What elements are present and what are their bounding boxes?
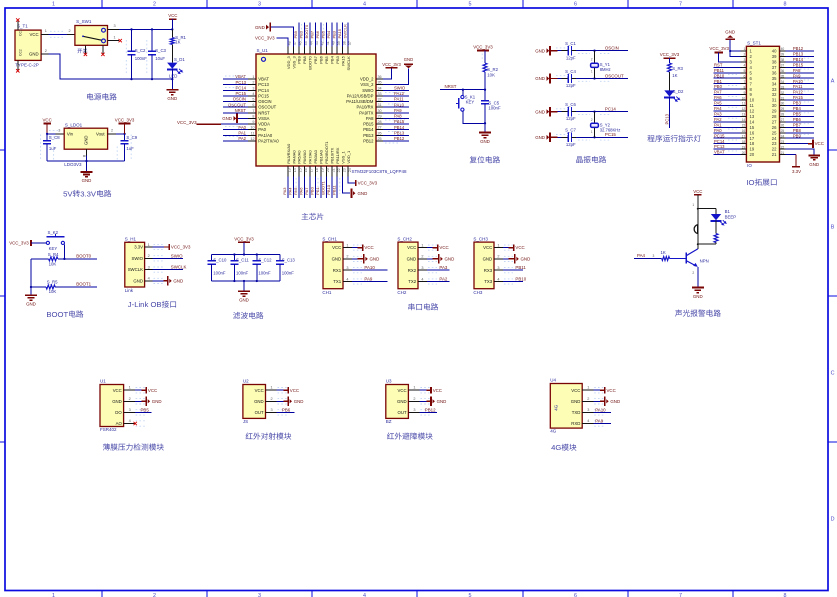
wire+net label PB12 (383, 140, 409, 142)
svg-text:PA15: PA15 (341, 55, 346, 65)
filter bottom rail (212, 280, 280, 282)
ground GND of BOOT circuit (25, 294, 37, 296)
wire+net label PA9 (352, 281, 387, 283)
svg-text:PC14: PC14 (714, 139, 725, 144)
svg-text:U3: U3 (386, 379, 392, 384)
svg-text:S_C2: S_C2 (135, 48, 146, 53)
svg-text:3: 3 (58, 128, 60, 132)
svg-text:17: 17 (750, 136, 755, 141)
svg-text:PA7: PA7 (714, 90, 722, 95)
svg-text:2: 2 (413, 397, 415, 401)
capacitor S_C7 12pF (567, 133, 569, 142)
svg-text:PA4: PA4 (288, 187, 293, 195)
U1 pin 44 BOOT0 (309, 46, 311, 54)
svg-text:38: 38 (772, 60, 777, 65)
wire+net label PA10 (383, 106, 409, 108)
svg-text:VCC_3V3: VCC_3V3 (234, 236, 254, 241)
svg-text:2: 2 (692, 271, 694, 275)
svg-text:26: 26 (781, 124, 785, 128)
svg-text:VCC_3V3: VCC_3V3 (9, 241, 29, 246)
wire+net label PB12 (786, 50, 815, 52)
wire+net label PA5 (714, 105, 741, 107)
svg-text:17: 17 (742, 134, 746, 138)
svg-text:2: 2 (591, 118, 593, 122)
S_ST1 pin 20 (740, 154, 746, 156)
svg-text:2: 2 (271, 397, 273, 401)
svg-text:TXD: TXD (572, 410, 581, 415)
svg-text:40: 40 (772, 49, 777, 54)
wire S_T1 VCC to switch pin 2 (41, 33, 48, 35)
svg-text:GND: GND (26, 302, 36, 307)
svg-text:100nF: 100nF (135, 56, 148, 61)
svg-text:STM32F103C8T6_LQFP48: STM32F103C8T6_LQFP48 (352, 169, 408, 174)
svg-text:29: 29 (772, 109, 777, 114)
svg-text:37: 37 (781, 64, 785, 68)
svg-text:PB5: PB5 (320, 30, 325, 38)
svg-text:BOOT0: BOOT0 (308, 55, 313, 69)
svg-text:13: 13 (288, 168, 292, 172)
U1 pin 8 VSSA (248, 117, 256, 119)
svg-text:100nF: 100nF (488, 105, 501, 110)
svg-text:PA4: PA4 (637, 253, 646, 258)
svg-text:PA9: PA9 (793, 73, 801, 78)
S_ST1 pin 1 (740, 50, 746, 52)
svg-text:VCC_3V3: VCC_3V3 (115, 118, 135, 123)
svg-text:GND: GND (152, 399, 162, 404)
svg-text:35: 35 (772, 76, 777, 81)
LED inside B1 (715, 209, 717, 214)
power GND at U2 pin 2 (277, 400, 284, 402)
svg-text:12pF: 12pF (566, 142, 576, 147)
wire+net label PB1 (320, 176, 322, 198)
svg-text:SWIO: SWIO (171, 253, 183, 258)
capacitor S_C8 1uF (46, 134, 48, 141)
S_ST1 pin 13 (740, 115, 746, 117)
svg-text:1: 1 (271, 386, 273, 390)
svg-text:2: 2 (587, 397, 589, 401)
svg-text:2: 2 (45, 49, 47, 53)
svg-text:PB4: PB4 (793, 106, 802, 111)
svg-text:GND: GND (521, 257, 531, 262)
svg-text:2: 2 (153, 1, 156, 7)
svg-text:VCC: VCC (407, 245, 416, 250)
title 滤波电路 (233, 312, 240, 319)
power VCC at S_CH3 pin 1 (503, 247, 508, 249)
wire+net label VBAT (714, 154, 741, 156)
svg-text:PB8: PB8 (793, 128, 802, 133)
svg-text:PB5: PB5 (141, 407, 150, 412)
crystal S_Y2 32.768KHz (594, 112, 596, 123)
U1 pin 19 PB1/A0 (320, 166, 322, 176)
svg-text:CC1: CC1 (19, 29, 23, 36)
svg-text:GND: GND (358, 191, 368, 196)
ground GND of alarm (692, 287, 704, 289)
svg-text:20: 20 (742, 151, 746, 155)
svg-text:S_SW1: S_SW1 (76, 19, 92, 24)
svg-text:PB3: PB3 (793, 101, 802, 106)
svg-text:28: 28 (781, 113, 785, 117)
S_ST1 pin 2 (740, 56, 746, 58)
U1 pin 25 PB12 (376, 140, 383, 142)
svg-text:1: 1 (129, 386, 131, 390)
svg-text:BOOT1: BOOT1 (76, 282, 91, 287)
svg-text:S_C1: S_C1 (565, 41, 576, 46)
wire+net label PA3 (287, 176, 289, 198)
svg-text:PC15: PC15 (714, 133, 725, 138)
wire+net label VBAT (223, 78, 248, 80)
svg-text:S_C3: S_C3 (155, 48, 166, 53)
svg-text:PB12: PB12 (363, 138, 374, 143)
svg-text:PC13: PC13 (236, 80, 247, 85)
svg-text:VCC: VCC (30, 32, 39, 37)
U1 pin 48 VDD_3 (287, 46, 289, 54)
svg-text:PA10: PA10 (595, 407, 606, 412)
wire+net label PC15 (714, 137, 741, 139)
svg-text:OSCOUT: OSCOUT (605, 73, 624, 78)
regulator S_LDO1 LDO3V3 (64, 128, 107, 149)
svg-text:PA3/RX/A0: PA3/RX/A0 (286, 143, 291, 164)
wire+net label PA2 (714, 121, 741, 123)
power GND at S_CH1 pin 2 (352, 258, 357, 260)
header S_ST1 IO expansion body (746, 46, 779, 162)
svg-text:24: 24 (348, 168, 352, 172)
svg-text:4G: 4G (551, 443, 561, 452)
svg-text:13: 13 (750, 114, 755, 119)
svg-text:PC15: PC15 (605, 132, 617, 137)
svg-text:VCC: VCC (483, 245, 492, 250)
S_T1 no-connect pin bottom (17, 60, 19, 69)
U1 pin 3 PC14 (248, 89, 256, 91)
svg-text:12: 12 (742, 107, 746, 111)
U1 pin 29 PA8 (376, 117, 383, 119)
svg-text:23: 23 (772, 141, 777, 146)
svg-text:OSCIN: OSCIN (233, 97, 246, 102)
title 电源电路 (87, 93, 93, 100)
wire+net label PB9 (786, 137, 815, 139)
svg-text:VCC_3V3: VCC_3V3 (709, 46, 729, 51)
U1 pin 39 PB3 (336, 46, 338, 54)
capacitor S_C10 100nF (211, 255, 213, 261)
svg-text:RX3: RX3 (484, 268, 493, 273)
svg-text:25: 25 (781, 129, 785, 133)
svg-text:S_C12: S_C12 (258, 257, 272, 262)
svg-text:21: 21 (781, 151, 785, 155)
U1 pin 15 PA5/A0 (298, 166, 300, 176)
svg-text:1uF: 1uF (49, 146, 57, 151)
svg-text:VDD_1: VDD_1 (346, 150, 351, 164)
crystal S_Y1 8MHz (594, 51, 596, 63)
svg-text:37: 37 (772, 65, 777, 70)
wire+net label PB14 (786, 61, 815, 63)
svg-text:3.3V: 3.3V (80, 189, 97, 198)
svg-text:VCC: VCC (148, 388, 157, 393)
svg-text:7: 7 (252, 109, 254, 113)
svg-text:C: C (831, 371, 835, 377)
svg-text:4: 4 (497, 277, 499, 281)
serial header S_CH1 (323, 242, 343, 289)
wire to net PC15 (572, 136, 577, 138)
svg-text:S_CH3: S_CH3 (473, 236, 488, 241)
svg-text:PB8: PB8 (302, 55, 307, 63)
svg-text:1: 1 (591, 130, 593, 134)
svg-text:8MHz: 8MHz (600, 67, 611, 72)
svg-text:S_C9: S_C9 (126, 135, 137, 140)
svg-text:12pF: 12pF (566, 55, 576, 60)
wire+net label PC13 (223, 84, 248, 86)
svg-text:PB0: PB0 (714, 84, 723, 89)
module U2 body (243, 385, 266, 419)
svg-text:8: 8 (744, 85, 746, 89)
svg-text:PA6: PA6 (299, 187, 304, 195)
U1 pin 20 PB2/BOOT1 (325, 166, 327, 176)
U1 pin 4 PC15 (248, 95, 256, 97)
svg-text:PA5/A0: PA5/A0 (297, 150, 302, 164)
svg-text:SWIO: SWIO (362, 88, 374, 93)
svg-text:2: 2 (252, 81, 254, 85)
U1 pin 12 PA2/TX/A0 (248, 140, 256, 142)
svg-text:PA6: PA6 (714, 95, 722, 100)
svg-text:VCC: VCC (439, 245, 448, 250)
capacitor S_C6 12pF (567, 107, 569, 116)
wire+net label PB11 (336, 176, 338, 198)
svg-text:3.3V: 3.3V (792, 169, 801, 174)
svg-text:PC14: PC14 (258, 88, 269, 93)
svg-text:PB4: PB4 (330, 55, 335, 63)
wire+net label PB7 (314, 23, 316, 47)
svg-text:GND: GND (332, 257, 342, 262)
svg-text:1: 1 (114, 35, 116, 39)
svg-text:1: 1 (421, 243, 423, 247)
resistor inside B1 (715, 220, 717, 233)
svg-text:16: 16 (742, 129, 746, 133)
svg-text:S_K2: S_K2 (48, 230, 59, 235)
svg-text:GND: GND (480, 139, 490, 144)
wire+net label PC13 (714, 148, 741, 150)
svg-text:4: 4 (363, 1, 366, 7)
svg-text:LDO3V3: LDO3V3 (64, 162, 82, 167)
svg-text:8: 8 (784, 593, 787, 597)
svg-text:35: 35 (781, 75, 785, 79)
U1 pin 14 PA4/A0 (293, 166, 295, 176)
svg-text:5V: 5V (63, 189, 73, 198)
svg-text:IO: IO (747, 163, 752, 168)
svg-text:PC13: PC13 (665, 113, 670, 124)
svg-text:PB14: PB14 (394, 125, 405, 130)
svg-text:23: 23 (781, 140, 785, 144)
wire+net label PA4 (714, 110, 741, 112)
svg-text:24: 24 (781, 134, 785, 138)
svg-text:4: 4 (346, 277, 348, 281)
svg-text:GND: GND (370, 257, 380, 262)
svg-text:18: 18 (750, 141, 755, 146)
title 薄膜压力检测模块 (103, 443, 110, 450)
U1 pin 35 VSS_2 (376, 84, 383, 86)
svg-text:3: 3 (497, 266, 499, 270)
svg-text:VCC: VCC (290, 388, 299, 393)
svg-text:IO: IO (746, 178, 754, 187)
bottom branch join of B1 (697, 243, 699, 245)
svg-text:VSS_3: VSS_3 (291, 55, 296, 68)
S_ST1 pin 12 (740, 110, 746, 112)
svg-text:20: 20 (750, 152, 755, 157)
svg-text:GND: GND (535, 109, 545, 114)
svg-text:PC13: PC13 (258, 82, 269, 87)
svg-text:10: 10 (750, 98, 755, 103)
svg-text:PC15: PC15 (236, 91, 247, 96)
svg-text:2: 2 (148, 254, 150, 258)
svg-text:Vin: Vin (67, 132, 74, 137)
svg-text:S_R3: S_R3 (672, 66, 683, 71)
svg-text:26: 26 (378, 131, 382, 135)
svg-text:SWIO: SWIO (394, 85, 406, 90)
svg-text:1uF: 1uF (126, 146, 134, 151)
svg-text:GND: GND (222, 116, 232, 121)
svg-text:VCC: VCC (607, 388, 616, 393)
svg-text:PB6: PB6 (282, 407, 291, 412)
svg-text:VBAT: VBAT (235, 74, 246, 79)
svg-text:17: 17 (310, 168, 314, 172)
svg-text:19: 19 (750, 147, 755, 152)
svg-text:3: 3 (587, 408, 589, 412)
svg-text:24: 24 (772, 136, 777, 141)
U1 pin 27 PB14 (376, 129, 383, 131)
svg-text:2: 2 (421, 255, 423, 259)
wire S_T1 GND to bottom rail (41, 53, 48, 55)
svg-text:9: 9 (252, 120, 254, 124)
svg-text:27: 27 (781, 118, 785, 122)
power GND at U1 pin 2 (135, 400, 142, 402)
capacitor S_C1 12pF (567, 46, 569, 55)
svg-text:PA3: PA3 (439, 265, 448, 270)
wire+net label PB11 (503, 269, 523, 271)
svg-text:S_CH2: S_CH2 (397, 236, 412, 241)
wire+net label PA9 (593, 423, 611, 425)
U1 pin 9 VDDA (248, 123, 256, 125)
svg-text:PA4/A0: PA4/A0 (291, 150, 296, 164)
svg-text:TYPE-C-2P: TYPE-C-2P (15, 63, 39, 68)
svg-text:12: 12 (750, 109, 755, 114)
svg-text:4: 4 (421, 277, 423, 281)
wire+net label PB4 (331, 23, 333, 47)
U1 pin 41 PB5 (325, 46, 327, 54)
svg-text:PA1/A0: PA1/A0 (258, 133, 273, 138)
wire to net OSCIN (572, 50, 577, 52)
svg-text:16: 16 (304, 168, 308, 172)
svg-text:BZ: BZ (386, 419, 392, 424)
svg-text:PB6: PB6 (319, 55, 324, 63)
S_ST1 pin 17 (740, 137, 746, 139)
U1 pin 13 PA3/RX/A0 (287, 166, 289, 176)
svg-text:PB7: PB7 (313, 55, 318, 63)
svg-text:PB4: PB4 (326, 30, 331, 38)
ground GND of LDO (81, 171, 93, 173)
U1 pin 37 SWCLK (347, 46, 349, 54)
capacitor S_C4 12pF (567, 74, 569, 83)
filter top rail (212, 254, 280, 256)
svg-text:1: 1 (252, 75, 254, 79)
svg-text:1: 1 (148, 243, 150, 247)
svg-text:3: 3 (413, 408, 415, 412)
capacitor S_C2 100nF (131, 29, 133, 51)
svg-text:PB1: PB1 (315, 186, 320, 194)
svg-text:8: 8 (784, 1, 787, 7)
svg-text:KEY: KEY (49, 246, 58, 251)
svg-text:33: 33 (378, 92, 382, 96)
svg-text:14: 14 (293, 168, 297, 172)
svg-text:CH1: CH1 (322, 290, 331, 295)
svg-text:U1: U1 (100, 379, 106, 384)
svg-text:PB10/TX: PB10/TX (330, 147, 335, 163)
svg-text:15: 15 (299, 168, 303, 172)
svg-text:OUT: OUT (398, 410, 407, 415)
U1 pin 2 PC13 (248, 84, 256, 86)
U1 pin 10 PA0 (248, 129, 256, 131)
svg-text:PA5: PA5 (714, 101, 722, 106)
wire + net label PC13 (669, 97, 671, 128)
svg-text:S_H1: S_H1 (125, 237, 137, 242)
svg-text:GND: GND (610, 399, 620, 404)
wire+net label PA12 (383, 95, 409, 97)
svg-text:PB0: PB0 (309, 186, 314, 194)
wire+net label PC14 (714, 143, 741, 145)
wire+net label PA12 (786, 94, 815, 96)
svg-text:S_D2: S_D2 (673, 89, 684, 94)
svg-text:S_LDO1: S_LDO1 (65, 123, 83, 128)
svg-text:10K: 10K (49, 261, 57, 266)
wire+net label PB5 (325, 23, 327, 47)
wire+net label PA0 (223, 129, 248, 131)
svg-text:PA10/RX: PA10/RX (357, 105, 374, 110)
svg-text:GND: GND (112, 399, 122, 404)
svg-text:31: 31 (772, 98, 777, 103)
svg-text:10: 10 (250, 126, 254, 130)
svg-text:10K: 10K (49, 289, 57, 294)
wire button to bottom rail (463, 111, 485, 123)
svg-text:PA7: PA7 (304, 187, 309, 195)
U1 pin 6 OSCOUT (248, 106, 256, 108)
svg-text:PA8: PA8 (394, 114, 402, 119)
svg-text:6: 6 (252, 103, 254, 107)
svg-text:31: 31 (378, 103, 382, 107)
svg-text:14: 14 (742, 118, 746, 122)
svg-text:PB0/A0: PB0/A0 (313, 149, 318, 163)
wire+net label PB12 (420, 411, 437, 413)
wire+net label PA7 (309, 176, 311, 198)
title 串口电路 (408, 303, 414, 310)
power GND at U1 VSS_1 pin 23 (343, 176, 351, 193)
wire+net label PA6 (303, 176, 305, 198)
svg-text:PA4: PA4 (714, 106, 722, 111)
svg-text:3: 3 (271, 408, 273, 412)
svg-text:1: 1 (497, 243, 499, 247)
svg-text:PC15: PC15 (258, 94, 269, 99)
svg-text:S_T1: S_T1 (17, 24, 28, 29)
wire+net label PA4 (293, 176, 295, 198)
svg-text:NRST: NRST (445, 84, 457, 89)
U1 pin 1 VBAT (248, 78, 256, 80)
svg-text:PB15: PB15 (394, 119, 405, 124)
wire+net label PB13 (786, 56, 815, 58)
wire+net label PB6 (277, 411, 295, 413)
svg-text:27: 27 (772, 120, 777, 125)
frame row ticks left/right (0, 149, 5, 151)
svg-text:PA8: PA8 (793, 68, 801, 73)
wire+net label PB0 (314, 176, 316, 198)
svg-text:OSCIN: OSCIN (605, 46, 619, 51)
wire+net label PA2 (223, 140, 248, 142)
svg-text:39: 39 (781, 53, 785, 57)
svg-text:VCC_3V3: VCC_3V3 (660, 52, 680, 57)
